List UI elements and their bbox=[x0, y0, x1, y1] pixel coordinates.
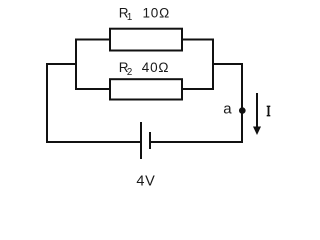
wire right outer vertical bbox=[241, 63, 243, 143]
svg-text:R2: R2 bbox=[119, 60, 133, 78]
wire right lead of R1 bbox=[182, 39, 213, 41]
wire bottom right from battery bbox=[150, 141, 243, 143]
node a junction dot bbox=[239, 107, 246, 114]
wire right junction bar bbox=[212, 39, 214, 91]
wire right lead of R2 bbox=[182, 88, 213, 90]
wire left junction bar bbox=[75, 39, 77, 91]
battery V1 long plate bbox=[140, 122, 142, 159]
wire left middle horizontal bbox=[47, 63, 76, 65]
wire left lead of R2 bbox=[76, 88, 110, 90]
current arrow I head bbox=[253, 127, 261, 136]
wire bottom left to battery bbox=[46, 141, 141, 143]
svg-text:a: a bbox=[223, 101, 232, 118]
resistor R1 bbox=[110, 29, 182, 51]
battery V1 short plate bbox=[149, 132, 151, 149]
wire left lead of R1 bbox=[76, 39, 110, 41]
wire left outer vertical bbox=[46, 63, 48, 143]
label R1 value 10 ohm bbox=[119, 5, 170, 23]
wire right middle horizontal bbox=[213, 63, 242, 65]
svg-text:4V: 4V bbox=[136, 174, 155, 190]
label R2 value 40 ohm bbox=[119, 60, 170, 78]
svg-text:10Ω: 10Ω bbox=[143, 5, 171, 20]
svg-text:40Ω: 40Ω bbox=[142, 60, 170, 75]
svg-text:R1: R1 bbox=[119, 5, 133, 23]
current arrow I shaft bbox=[256, 93, 258, 128]
label current I bbox=[267, 106, 271, 115]
resistor R2 bbox=[110, 79, 182, 99]
